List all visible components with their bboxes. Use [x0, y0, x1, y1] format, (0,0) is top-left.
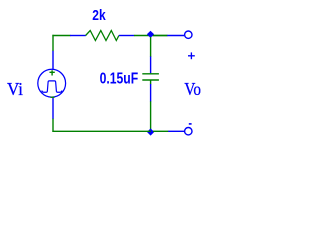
wire: top-left horizontal segment [52, 35, 70, 37]
resistor zigzag body [86, 31, 119, 41]
label: plus sign at output [188, 52, 195, 59]
source pulse waveform glyph [42, 81, 62, 92]
junction: top node [147, 31, 154, 38]
wire: top-middle horizontal segment [134, 35, 167, 37]
svg-text:Vo: Vo [184, 79, 201, 99]
port bubble circle [185, 128, 192, 135]
svg-text:2k: 2k [92, 8, 106, 24]
capacitor bottom stub [150, 80, 152, 84]
wire: vertical from top junction to capacitor [150, 37, 152, 57]
wire: vertical from capacitor to bottom junction [150, 101, 152, 132]
wire: top-right horizontal segment [153, 35, 168, 37]
svg-text:0.15uF: 0.15uF [100, 71, 139, 88]
wire: bottom-right horizontal segment [153, 130, 168, 132]
resistor pin 1 [70, 35, 86, 37]
port pin [168, 130, 184, 132]
source polarity marks + and - [50, 70, 55, 97]
port terminal: output top (bubble) [167, 31, 192, 38]
label: minus sign at output [189, 123, 192, 125]
capacitor pin 1 [150, 57, 152, 74]
capacitor top plate [142, 73, 159, 75]
wire: left vertical upper segment [52, 35, 54, 51]
source circle body [38, 69, 66, 97]
wire: left vertical lower segment [52, 118, 54, 132]
voltage source V1 (VPULSE) [38, 51, 66, 119]
source pin + (top) [52, 51, 54, 69]
port pin [167, 35, 184, 37]
resistor pin 2 [119, 35, 134, 37]
wire: bottom horizontal segment [52, 130, 150, 132]
capacitor bottom plate [142, 79, 159, 81]
svg-text:Vi: Vi [7, 79, 23, 99]
port bubble circle [185, 31, 192, 38]
resistor R1 [70, 31, 134, 41]
capacitor C1 [142, 57, 159, 102]
source pin - (bottom) [52, 98, 54, 119]
capacitor pin 2 [150, 84, 152, 102]
junction: bottom node [147, 128, 154, 135]
port terminal: output bottom (bubble) [168, 128, 192, 135]
